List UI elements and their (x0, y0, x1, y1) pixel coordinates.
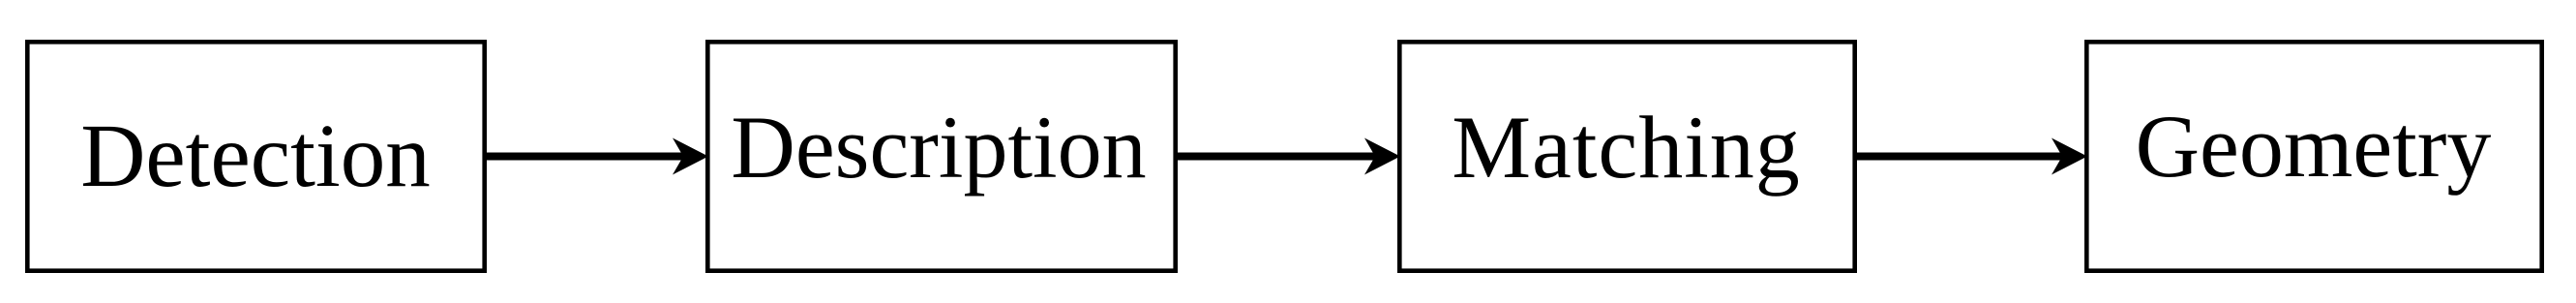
arrowhead 1 (673, 138, 708, 175)
wire arrow 3 shaft (1857, 153, 2064, 161)
svg-text:Description: Description (731, 98, 1146, 197)
arrowhead 2 (1364, 138, 1400, 175)
wire arrow 1 shaft (487, 153, 685, 161)
svg-text:Geometry: Geometry (2136, 97, 2492, 196)
svg-text:Matching: Matching (1452, 98, 1801, 197)
wire arrow 2 shaft (1178, 153, 1377, 161)
box Detection (27, 42, 484, 270)
box Description (707, 42, 1175, 270)
arrowhead 3 (2052, 138, 2087, 175)
box Matching (1399, 42, 1854, 270)
box Geometry (2086, 42, 2541, 270)
svg-text:Detection: Detection (80, 106, 431, 206)
